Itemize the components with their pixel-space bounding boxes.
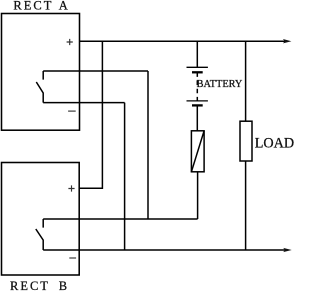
svg-text:BATTERY: BATTERY xyxy=(197,79,243,90)
wire switch A top lead xyxy=(43,70,148,72)
arrow positive output xyxy=(283,39,292,43)
svg-text:LOAD: LOAD xyxy=(255,136,294,152)
wire load bottom lead xyxy=(245,161,247,250)
wire switch B top lead to fuse xyxy=(43,218,197,220)
rectifier B box xyxy=(2,163,80,276)
wire RECT B plus riser xyxy=(79,41,102,188)
terminal plus mark (RECT B) xyxy=(68,185,74,191)
battery cell 1 short plate xyxy=(192,71,203,73)
terminal minus mark (RECT B) xyxy=(69,257,76,259)
terminal plus mark (RECT A) xyxy=(67,39,73,45)
arrow negative output xyxy=(283,248,292,252)
battery cell 2 long plate xyxy=(187,100,208,102)
wire switch A drop xyxy=(147,71,149,219)
wire battery to fuse xyxy=(196,105,198,130)
switch S2 (RECT B) xyxy=(36,219,43,250)
switch S1 (RECT A) xyxy=(36,71,43,103)
wire RECT A minus lead xyxy=(43,102,124,104)
fuse F1 body xyxy=(191,131,204,172)
terminal minus mark (RECT A) xyxy=(68,110,76,112)
load body xyxy=(240,121,252,161)
rectifier A box xyxy=(2,14,80,131)
svg-text:A: A xyxy=(59,0,68,13)
fuse F1 diagonal xyxy=(191,131,204,172)
wire fuse riser xyxy=(197,172,199,219)
svg-text:B: B xyxy=(59,279,67,292)
wire RECT A minus drop xyxy=(124,103,126,250)
wire load top lead xyxy=(245,41,247,121)
wire battery top lead xyxy=(196,41,198,67)
svg-text:RECT: RECT xyxy=(10,279,50,292)
battery cell 2 short plate xyxy=(192,104,203,106)
battery cell 1 long plate xyxy=(187,66,208,68)
battery dashed link xyxy=(196,72,198,101)
wire bottom bus xyxy=(43,249,286,251)
wire positive bus xyxy=(80,40,286,42)
svg-text:RECT: RECT xyxy=(13,0,53,13)
